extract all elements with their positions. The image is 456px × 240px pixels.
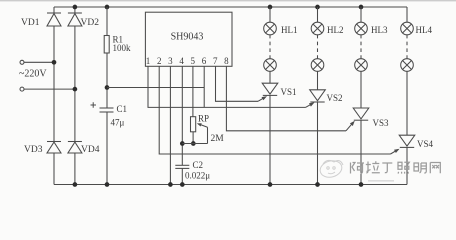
svg-text:VD3: VD3 — [24, 145, 43, 155]
wire: VD2/VD4 column — [74, 7, 76, 185]
svg-text:SH9043: SH9043 — [171, 32, 204, 43]
node: dot R1 top on + rail — [105, 5, 110, 10]
capacitor C2 — [175, 165, 189, 168]
svg-text:2M: 2M — [211, 134, 225, 144]
wire: pin 2 down and right to VS4 gate — [159, 66, 390, 154]
wire: column 3 top lead — [360, 7, 362, 22]
svg-text:VD2: VD2 — [81, 18, 100, 28]
watermark char 丁 — [382, 163, 392, 173]
wire: VS4 gate arrow diagonal — [391, 150, 399, 154]
diode VD2 — [68, 13, 82, 26]
wire: VS1 cathode to - rail — [269, 95, 271, 184]
svg-text:HL2: HL2 — [327, 25, 344, 35]
node: dot C2 bottom — [180, 182, 185, 187]
watermark char 拉 — [366, 161, 380, 173]
lamp HL2 — [311, 22, 324, 35]
watermark logo — [318, 158, 343, 179]
node: dot lamp column 2 top — [315, 5, 320, 10]
lamp column 2 lower — [311, 59, 324, 72]
svg-text:VD1: VD1 — [21, 18, 40, 28]
svg-text:C1: C1 — [117, 104, 128, 114]
wire: VS2 gate arrow diagonal — [306, 103, 314, 107]
diode VD1 — [47, 13, 61, 26]
watermark char 照 — [398, 162, 409, 173]
wire: pin 3 down to - rail — [169, 66, 171, 184]
node: VS1 gate arrowhead — [262, 96, 268, 100]
wire: C1 node to pin6 column — [107, 87, 204, 89]
svg-text:5: 5 — [191, 56, 196, 66]
terminal: AC input lower — [20, 87, 24, 91]
node: dot lamp column 3 top — [359, 5, 364, 10]
svg-text:7: 7 — [213, 56, 218, 66]
node: dot VS1 bottom — [268, 182, 273, 187]
lamp column 3 lower — [355, 59, 368, 72]
node: dot AC lower junction — [73, 87, 78, 92]
svg-text:~220V: ~220V — [19, 69, 47, 80]
wire: C2 bottom lead — [181, 168, 183, 184]
svg-text:VD4: VD4 — [81, 145, 100, 155]
wire: column 2 top lead — [317, 7, 319, 22]
wire: column 1 dashed lamp link — [269, 35, 271, 59]
wire: VS4 cathode to - rail — [406, 147, 408, 184]
wire: column 1 top lead — [269, 7, 271, 22]
svg-text:VS4: VS4 — [417, 139, 434, 149]
lamp column 1 lower — [264, 59, 277, 72]
svg-text:0.022μ: 0.022μ — [185, 171, 210, 181]
svg-text:VS1: VS1 — [281, 87, 297, 97]
wire: column 3 dashed lamp link — [360, 35, 362, 59]
transistor VS1 thyristor — [262, 83, 278, 95]
wire: pin 8 down and right to VS3 gate — [226, 66, 346, 131]
svg-text:VS2: VS2 — [327, 93, 343, 103]
wire: VD1/VD3 column — [53, 7, 55, 185]
wire: column 2 dashed lamp link — [317, 35, 319, 59]
wire: VS3 cathode to - rail — [360, 120, 362, 184]
lamp HL4 — [401, 22, 414, 35]
wire: top + rail — [54, 6, 407, 8]
wire: pin 7 down and right to VS1 gate — [216, 66, 259, 101]
wire: lamp to VS3 — [360, 71, 362, 108]
watermark small url smudge — [368, 180, 394, 182]
svg-text:47μ: 47μ — [111, 118, 125, 128]
label + of C1 — [91, 102, 97, 107]
svg-text:VS3: VS3 — [373, 118, 390, 128]
lamp column 4 lower — [401, 59, 414, 72]
wire: column 4 top lead — [406, 7, 408, 22]
potentiometer RP body — [191, 117, 196, 132]
watermark char 明 — [414, 163, 426, 173]
wire: R1 top lead — [106, 7, 108, 36]
wire: column 4 dashed lamp link — [406, 35, 408, 59]
transistor VS3 thyristor — [353, 108, 369, 120]
lamp HL3 — [355, 22, 368, 35]
watermark char 阿 — [351, 163, 365, 174]
svg-text:HL3: HL3 — [371, 25, 388, 35]
node: dot VS3 bottom — [359, 182, 364, 187]
transistor VS4 thyristor — [399, 135, 415, 147]
svg-text:3: 3 — [168, 56, 173, 66]
wire: VS2 cathode to - rail — [317, 102, 319, 185]
wire: VS1 gate arrow diagonal — [258, 97, 266, 101]
diode VD4 — [68, 142, 82, 154]
svg-text:C2: C2 — [193, 160, 204, 170]
wire: pin 1 down and right to VS2 gate (node B) — [148, 66, 306, 107]
wire: bottom - rail — [54, 184, 407, 186]
node: dot VD2 top — [73, 5, 78, 10]
wire: lamp to VS4 — [406, 71, 408, 135]
node: VS3 gate arrowhead — [350, 121, 355, 126]
node: dot pin4/RP wire junction — [180, 141, 185, 146]
wire: AC upper to VD1 column — [24, 61, 54, 63]
node: RP wiper arrowhead — [197, 123, 202, 126]
svg-text:8: 8 — [224, 56, 229, 66]
svg-text:100k: 100k — [113, 43, 132, 53]
svg-text:4: 4 — [179, 56, 184, 66]
svg-text:HL1: HL1 — [281, 25, 298, 35]
capacitor C1 — [100, 108, 114, 112]
transistor VS2 thyristor — [310, 90, 326, 102]
watermark text (hand-drawn CJK strokes, chars: 阿拉丁照明网) — [351, 161, 441, 173]
wire: lamp to VS1 — [269, 71, 271, 83]
wire: C1 bottom lead — [106, 112, 108, 185]
diode VD3 — [47, 142, 61, 154]
node: VS4 gate arrowhead — [394, 149, 400, 153]
wire: R1 bottom lead to C1 node — [106, 53, 108, 108]
page top border — [0, 0, 456, 1]
wire: lamp to VS2 — [317, 71, 319, 90]
wire: VS3 gate arrow diagonal — [346, 122, 354, 131]
node: dot RP bottom — [191, 141, 196, 146]
node: VS2 gate arrowhead — [309, 102, 315, 106]
node: dot AC upper junction — [52, 60, 57, 65]
node: dot VS2 bottom — [315, 182, 320, 187]
lamp HL1 — [264, 22, 277, 35]
wire: RP wiper arm — [182, 124, 207, 144]
wire: pin 6 down to node B — [203, 66, 205, 107]
svg-text:1: 1 — [146, 56, 151, 66]
svg-text:6: 6 — [202, 56, 207, 66]
node: dot lamp column 1 top — [268, 5, 273, 10]
wire: RP bottom lead — [192, 132, 194, 144]
svg-text:2: 2 — [157, 56, 162, 66]
node: dot VD4 bottom — [73, 182, 78, 187]
svg-text:HL4: HL4 — [416, 25, 433, 35]
terminal: AC input upper — [20, 60, 24, 64]
wire: AC lower to VD2 column — [24, 88, 75, 90]
wire: pin 4 down through RP node to C2 — [181, 66, 183, 165]
node: dot C1 bottom — [105, 182, 110, 187]
wire: pin 5 down to RP top — [192, 66, 194, 116]
node: dot R1/C1 junction — [105, 85, 110, 90]
node: dot pin 3 bottom — [168, 182, 173, 187]
resistor R1 — [104, 36, 109, 54]
svg-text:RP: RP — [198, 114, 209, 124]
op-amp U1 IC SH9043 box — [145, 12, 232, 66]
watermark char 网 — [430, 163, 440, 174]
